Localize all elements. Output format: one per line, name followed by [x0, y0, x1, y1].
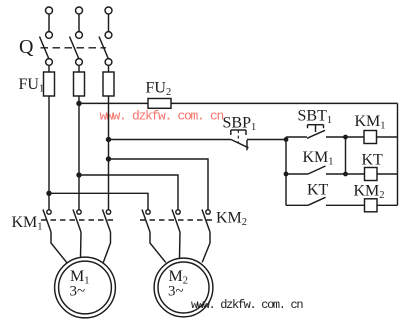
svg-text:SBT1: SBT1	[298, 108, 333, 127]
wire M1 lead left	[51, 232, 67, 263]
fuse FU1 pole 3	[103, 72, 114, 96]
svg-text:KT: KT	[307, 182, 329, 199]
coil KM2	[365, 199, 378, 212]
node phase3 KM2 feed	[107, 157, 111, 161]
contact KT NO (time delay)	[308, 197, 326, 205]
wire SBT1 to KM1 coil	[326, 136, 364, 138]
wire switch to fuse 1	[48, 65, 50, 72]
wire KM2 coil to bus	[377, 204, 398, 206]
wire to FU2	[79, 102, 148, 104]
wire M1 lead right	[103, 232, 110, 262]
label SBP1	[223, 115, 257, 134]
motor M2	[154, 258, 213, 317]
KM1 linkage	[41, 219, 113, 221]
svg-text:3~: 3~	[70, 284, 86, 300]
contactor KM1 main pole 3	[103, 210, 111, 233]
switch Q pole 1	[40, 32, 53, 66]
wire switch to fuse 2	[78, 65, 80, 72]
wire phase1 to KM2 pole1	[49, 193, 148, 210]
contactor KM2 main pole 2	[172, 210, 180, 233]
contactor KM1 main pole 1	[43, 210, 51, 233]
wire phase 1 down	[48, 96, 50, 210]
supply terminal L3	[105, 7, 112, 14]
contactor KM2 main pole 3	[202, 210, 210, 233]
svg-text:FU2: FU2	[146, 80, 172, 99]
supply terminal L2	[76, 7, 83, 14]
node phase1 KM2 feed	[47, 191, 51, 195]
wire M2 lead left	[150, 232, 166, 263]
contact KM1 auxiliary NO	[308, 166, 326, 174]
wire switch to fuse 3	[108, 65, 110, 72]
fuse FU1 pole 1	[44, 72, 55, 96]
wire L1 to switch	[48, 14, 50, 32]
wire M2 lead right	[202, 232, 210, 262]
switch Q pole 3	[99, 32, 112, 66]
coil KT	[365, 168, 378, 181]
svg-text:KM1: KM1	[303, 149, 334, 168]
label KT contact	[307, 182, 329, 199]
svg-text:KM1: KM1	[12, 214, 43, 233]
wire phase 3 down	[108, 96, 110, 210]
wire KT contact to KM2 coil	[326, 204, 365, 206]
wire bus to KT contact	[286, 204, 308, 206]
label M2	[168, 268, 188, 300]
svg-text:SBP1: SBP1	[223, 115, 257, 134]
wire M2 lead middle	[179, 232, 182, 258]
label FU1	[19, 76, 45, 95]
node left bus top	[284, 138, 287, 141]
node phase2 KM2 feed	[77, 173, 81, 177]
wire M1 lead middle	[80, 232, 83, 258]
label SBT1	[298, 108, 333, 127]
wire phase3 to KM2 pole3	[109, 159, 209, 210]
node bus branch2	[284, 172, 287, 175]
svg-text:KM1: KM1	[355, 113, 386, 132]
svg-text:3~: 3~	[168, 284, 184, 300]
switch Q pole 2	[70, 32, 83, 66]
wire L2 to switch	[78, 14, 80, 32]
wire KT coil to bus	[377, 173, 398, 175]
wire phase 2 down	[78, 96, 80, 210]
node self-hold bottom	[344, 172, 347, 175]
pushbutton SBP1 (NC stop)	[231, 130, 249, 150]
wire L3 to switch	[108, 14, 110, 32]
node phase3 control junction	[107, 138, 111, 142]
wire self-hold vertical	[345, 137, 347, 174]
wire FU2 to right bus	[171, 102, 398, 104]
wire SBP1 to bus	[247, 139, 286, 141]
label M1	[70, 268, 90, 300]
supply terminal L1	[46, 7, 53, 14]
label KM2 coil	[354, 183, 385, 202]
svg-text:Q: Q	[19, 36, 34, 58]
contactor KM1 main pole 2	[73, 210, 81, 233]
svg-text:KT: KT	[362, 152, 384, 169]
label KM2 main	[216, 210, 247, 229]
KM2 linkage	[140, 219, 213, 221]
wire KM1 coil to bus	[377, 136, 398, 138]
coil KM1	[364, 131, 377, 144]
pushbutton SBT1 (NO start)	[307, 125, 325, 139]
wire phase2 to KM2 pole2	[79, 175, 178, 210]
wire bus to KM1 aux contact	[286, 173, 308, 175]
fuse FU1 pole 2	[74, 72, 85, 96]
wire KM1 aux to KT coil	[326, 173, 365, 175]
wire to SBT1	[286, 136, 307, 138]
label KM1 aux	[303, 149, 334, 168]
wire right bus	[397, 103, 399, 205]
label Q	[19, 36, 34, 58]
wire control to SBP1	[109, 139, 232, 141]
fuse FU2	[148, 99, 171, 109]
label FU2	[146, 80, 172, 99]
motor M1	[55, 257, 116, 318]
label KT coil	[362, 152, 384, 169]
wire left bus	[285, 137, 287, 205]
switch Q linkage	[41, 47, 107, 49]
label KM1 main	[12, 214, 43, 233]
node phase2-FU2 junction	[77, 101, 81, 105]
svg-text:KM2: KM2	[216, 210, 247, 229]
svg-text:www. dzkfw. com. cn: www. dzkfw. com. cn	[100, 109, 224, 124]
contactor KM2 main pole 1	[142, 210, 150, 233]
label KM1 coil	[355, 113, 386, 132]
svg-text:FU1: FU1	[19, 76, 45, 95]
node self-hold junction	[344, 135, 347, 138]
watermark black www.dzkfw.com.cn	[191, 298, 303, 312]
watermark red www.dzkfw.com.cn	[100, 109, 224, 124]
svg-text:KM2: KM2	[354, 183, 385, 202]
